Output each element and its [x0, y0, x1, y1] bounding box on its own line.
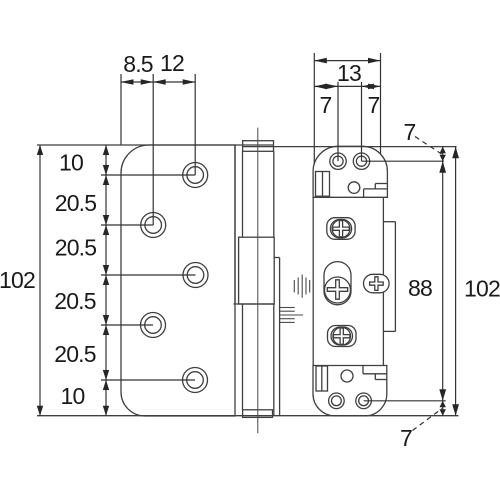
svg-text:88: 88 [408, 275, 432, 301]
svg-text:8.5: 8.5 [123, 51, 153, 77]
svg-text:12: 12 [160, 50, 184, 76]
svg-text:20.5: 20.5 [54, 341, 96, 367]
svg-text:20.5: 20.5 [55, 235, 97, 261]
svg-text:20.5: 20.5 [54, 288, 96, 314]
svg-text:10: 10 [59, 150, 83, 176]
svg-text:10: 10 [61, 383, 85, 409]
svg-text:102: 102 [464, 276, 500, 302]
svg-text:102: 102 [0, 267, 35, 293]
svg-text:7: 7 [320, 92, 332, 118]
svg-text:7: 7 [404, 119, 416, 145]
svg-text:7: 7 [368, 92, 380, 118]
svg-text:7: 7 [400, 425, 412, 451]
svg-text:20.5: 20.5 [55, 190, 97, 216]
svg-text:13: 13 [337, 60, 361, 86]
